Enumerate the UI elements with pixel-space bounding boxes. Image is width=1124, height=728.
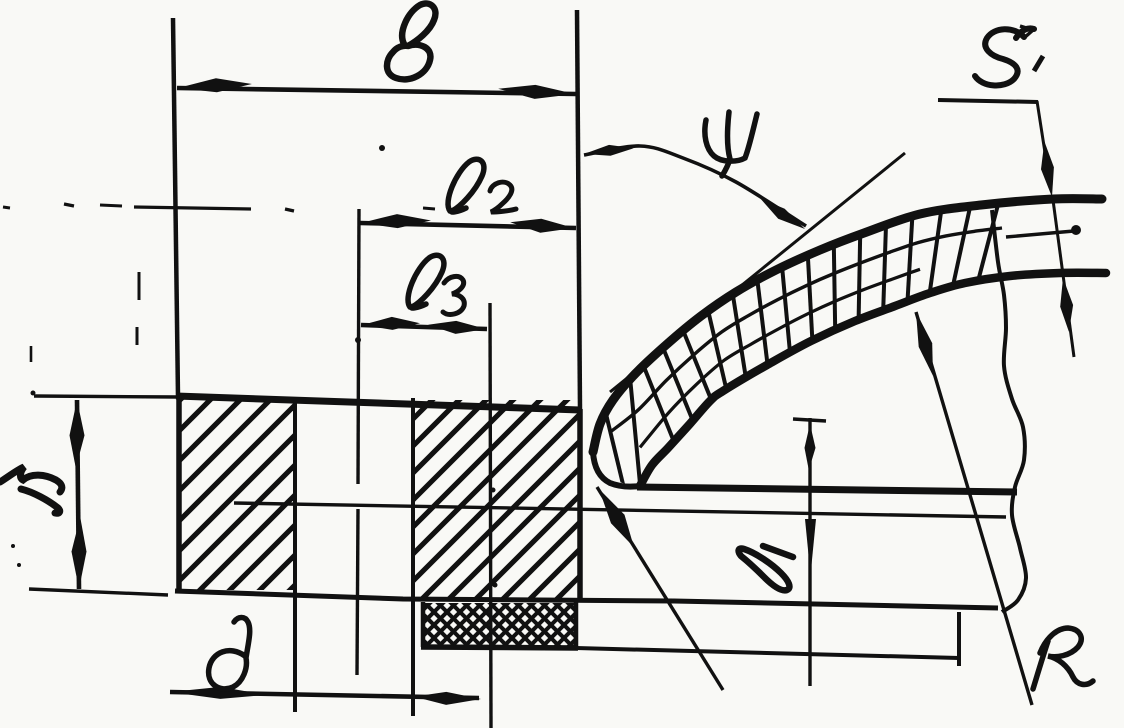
bolster step riser <box>957 612 961 666</box>
left die block hatched <box>176 397 182 592</box>
label l2 <box>448 159 484 212</box>
dimension h line <box>77 400 79 589</box>
sheet lower thin surface line <box>234 503 1006 517</box>
angle psi arc <box>584 146 806 226</box>
dimension l2 line <box>360 223 576 228</box>
label B <box>387 3 435 79</box>
label R <box>1033 628 1093 689</box>
cross-hatched pressure pad block <box>421 602 426 647</box>
extension line left (B) <box>173 18 178 397</box>
label psi <box>705 112 757 176</box>
strip mid arc B <box>640 269 920 447</box>
bent sheet strip outer edge <box>593 199 1102 452</box>
sheet end line with dot <box>1006 231 1074 237</box>
strip cross rungs hatch <box>606 203 999 487</box>
label S1 <box>975 28 1034 85</box>
bottom surface line of die assembly <box>175 591 998 608</box>
label d <box>209 618 250 689</box>
label h (rotated) <box>0 467 62 513</box>
strip tip rounding <box>593 452 640 487</box>
dimension S1 leader <box>938 100 1038 102</box>
dimension l1 line <box>793 419 826 421</box>
strip mid arc A <box>610 228 1002 432</box>
radius R leader <box>916 312 1032 705</box>
stray specks <box>3 207 10 208</box>
extension line right (B, l2) <box>577 10 580 409</box>
extension line for l3/d right <box>490 303 491 728</box>
lower bolster step line <box>576 648 959 658</box>
top surface line of die blocks <box>34 396 178 397</box>
h extension bottom <box>29 589 168 595</box>
dimension d line <box>170 692 479 698</box>
bent sheet strip inner edge <box>640 273 1106 486</box>
wavy break line <box>992 210 1026 612</box>
tangent flank line <box>610 153 905 392</box>
extension line for l2/l3 (slot centre) <box>358 209 359 484</box>
horizontal centre line dash-dot <box>64 204 74 206</box>
dimension l3 line <box>361 325 487 329</box>
sheet flat top surface line <box>637 487 1017 492</box>
dimension B line <box>177 88 576 94</box>
label l3 <box>408 255 444 308</box>
bend point leader arrow <box>597 487 723 690</box>
middle die block hatched <box>411 398 415 716</box>
label l1 (rotated) <box>739 546 793 590</box>
vertical centre dashes <box>138 272 141 300</box>
